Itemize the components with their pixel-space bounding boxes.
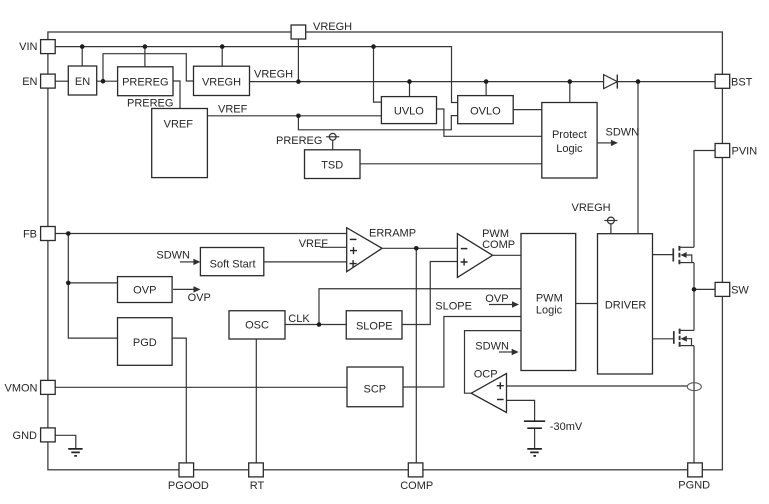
block OVLO (458, 96, 514, 124)
svg-text:FB: FB (23, 228, 37, 240)
svg-text:PGD: PGD (133, 337, 157, 349)
svg-text:PREREG: PREREG (127, 98, 173, 110)
wire OCP plus input from sense (507, 385, 688, 387)
pin GND (41, 428, 56, 442)
pin VREGH (291, 25, 306, 39)
wire PGD out to PGOOD pin (172, 338, 186, 463)
block DRIVER (598, 234, 653, 374)
sign OCP minus (497, 399, 504, 401)
wire OCP minus to -30mV cap (507, 400, 535, 421)
svg-text:PVIN: PVIN (732, 146, 758, 158)
svg-text:DRIVER: DRIVER (605, 300, 647, 312)
pin PGND (688, 463, 703, 477)
wire diode cathode to BST pin (617, 81, 715, 83)
svg-text:Soft Start: Soft Start (210, 258, 256, 270)
wire VIN to VREGH block (221, 47, 223, 67)
svg-text:VMON: VMON (5, 383, 38, 395)
svg-text:UVLO: UVLO (394, 105, 424, 117)
svg-text:PWM: PWM (536, 293, 563, 305)
power flag VREGH at DRIVER (604, 217, 617, 234)
svg-text:SW: SW (731, 285, 749, 297)
wire VIN to PREREG block (144, 47, 146, 67)
svg-text:COMP: COMP (400, 480, 433, 492)
arrow SDWN into PWM Logic (499, 349, 519, 355)
op-amp ERRAMP (347, 228, 382, 272)
pin SW (715, 282, 730, 296)
pin FB (41, 227, 56, 241)
svg-text:PREREG: PREREG (122, 77, 168, 89)
wire SCP out to PWM Logic (403, 317, 521, 388)
pin COMP (408, 463, 423, 477)
wire VREGH rail to Protect Logic (569, 82, 571, 103)
sign PWM COMP minus (461, 248, 468, 250)
wire VREGH rail to UVLO (409, 82, 411, 97)
comparator OCP (471, 374, 506, 413)
wire ERRAMP output to COMP pin (415, 248, 417, 463)
svg-text:VREF: VREF (164, 119, 194, 131)
svg-text:VREGH: VREGH (572, 202, 611, 214)
capacitor -30mV (524, 421, 545, 428)
wire EN over-route to VREGH block (103, 54, 194, 81)
svg-text:VREF: VREF (299, 238, 329, 250)
svg-text:VREF: VREF (218, 104, 248, 116)
wire PVIN to high-side FET drain (694, 151, 715, 248)
pin PGOOD (179, 463, 194, 477)
wire UVLO out to Protect Logic (437, 109, 542, 136)
IC package outline frame (48, 32, 723, 470)
arrow OVP net label (173, 286, 200, 292)
wire PWM Logic to DRIVER (576, 303, 598, 305)
svg-text:SDWN: SDWN (606, 126, 640, 138)
wire TSD out to Protect Logic (360, 163, 542, 165)
wire GND pin to ground (56, 435, 76, 449)
wire VREF branch to OVLO (298, 116, 457, 130)
wire PREREG out to VREF block (173, 81, 180, 109)
block VREF (152, 109, 208, 178)
svg-text:BST: BST (731, 76, 753, 88)
pin VMON (41, 380, 56, 394)
svg-text:COMP: COMP (482, 239, 515, 251)
svg-text:VIN: VIN (19, 41, 37, 53)
svg-text:SDWN: SDWN (156, 249, 190, 261)
diode D1 (604, 75, 618, 89)
sign OCP plus (497, 382, 504, 389)
sign ERRAMP plus1 (350, 247, 357, 254)
block Soft Start (200, 248, 263, 276)
wire VMON rail to SCP (56, 386, 348, 388)
wire FB branch to OVP (68, 282, 117, 284)
block Protect Logic (542, 103, 597, 179)
block OSC (229, 311, 285, 339)
power flag PREREG at TSD (326, 133, 339, 149)
arrow SDWN into Soft Start (180, 259, 200, 265)
wire VIN to UVLO (374, 47, 382, 103)
svg-text:SDWN: SDWN (475, 340, 509, 352)
wire VIN rail (55, 47, 458, 103)
svg-text:Protect: Protect (552, 129, 587, 141)
wire VREF label stub to ERRAMP plus (320, 246, 346, 248)
arrow OVP into PWM Logic (489, 301, 519, 307)
pin BST (715, 74, 730, 88)
wire OCP out to PWM Logic (465, 331, 522, 394)
wire BST node down to DRIVER (637, 82, 639, 234)
wire high-side source to SW node and low-side drain (693, 263, 695, 331)
svg-text:PWM: PWM (482, 228, 509, 240)
wire VREF rail (207, 115, 381, 117)
ground symbol under cap (527, 449, 542, 456)
sign ERRAMP minus (350, 238, 357, 240)
svg-text:TSD: TSD (321, 159, 343, 171)
block PWM Logic (521, 234, 576, 371)
sign PWM COMP plus (461, 259, 468, 266)
svg-text:SCP: SCP (363, 383, 386, 395)
wire FB rail to ERRAMP (56, 233, 347, 235)
block VREGH (194, 66, 250, 95)
svg-text:GND: GND (13, 430, 38, 442)
svg-text:OVP: OVP (485, 293, 508, 305)
node sense ellipse on source line (687, 383, 701, 391)
svg-text:-30mV: -30mV (550, 421, 583, 433)
block PGD (118, 318, 173, 366)
svg-text:OVLO: OVLO (470, 105, 501, 117)
svg-text:EN: EN (22, 76, 37, 88)
svg-text:EN: EN (75, 76, 90, 88)
svg-text:PREREG: PREREG (276, 135, 322, 147)
wire Soft Start to ERRAMP plus (264, 261, 347, 263)
block TSD (305, 150, 361, 179)
wire PWM COMP output to PWM Logic (493, 254, 521, 256)
block SCP (347, 367, 403, 407)
wire cap to ground (534, 428, 536, 449)
arrow SDWN out of Protect Logic (597, 140, 618, 146)
wire VREGH rail to diode (250, 81, 604, 83)
svg-text:Logic: Logic (556, 143, 583, 155)
wire SLOPE to PWM COMP plus (402, 262, 457, 325)
wire EN block to PREREG (97, 80, 118, 82)
svg-text:OSC: OSC (245, 319, 269, 331)
block PREREG (118, 67, 173, 96)
comparator PWM COMP (457, 234, 492, 278)
wire CLK branch to PWM Logic (319, 289, 521, 325)
pin EN (41, 74, 56, 88)
svg-text:VREGH: VREGH (313, 21, 352, 33)
svg-text:VREGH: VREGH (202, 77, 241, 89)
wire VREGH pin drop (297, 39, 299, 82)
svg-text:RT: RT (250, 480, 265, 492)
svg-text:OVP: OVP (133, 285, 156, 297)
svg-text:PGOOD: PGOOD (168, 480, 209, 492)
svg-text:PGND: PGND (678, 479, 710, 491)
wire OSC to RT pin (255, 339, 257, 463)
block OVP (118, 277, 173, 303)
wire VIN to EN block (81, 47, 83, 66)
svg-text:ERRAMP: ERRAMP (369, 227, 416, 239)
wire SW node to SW pin (694, 288, 715, 290)
svg-text:SLOPE: SLOPE (356, 320, 393, 332)
pin VIN (41, 40, 56, 54)
wire VREGH rail to OVLO (485, 82, 487, 96)
svg-text:CLK: CLK (288, 313, 310, 325)
wire FB branch down (68, 234, 117, 339)
transistor Q1 high-side NMOS (653, 246, 695, 264)
block UVLO (381, 97, 436, 124)
wire OVLO out to Protect Logic (513, 109, 542, 111)
wire low-side source to PGND pin (693, 346, 695, 464)
block SLOPE (346, 311, 402, 339)
svg-text:Logic: Logic (536, 305, 563, 317)
block EN (68, 66, 96, 95)
pin RT (249, 463, 264, 477)
svg-text:OVP: OVP (188, 292, 211, 304)
pin PVIN (715, 144, 730, 158)
wire EN pin to EN block (55, 80, 68, 82)
wire ERRAMP output (382, 247, 457, 249)
sign ERRAMP plus2 (350, 260, 357, 267)
transistor Q2 low-side NMOS (653, 329, 695, 347)
wire OSC CLK to SLOPE (285, 324, 346, 326)
ground symbol at GND pin (68, 449, 82, 456)
svg-text:OCP: OCP (474, 369, 498, 381)
svg-text:SLOPE: SLOPE (435, 301, 472, 313)
svg-text:VREGH: VREGH (254, 69, 293, 81)
